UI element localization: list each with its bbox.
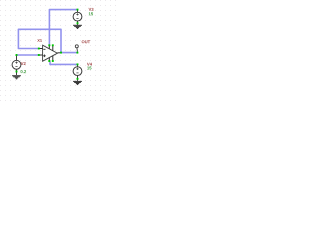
voltage source V2: [12, 60, 21, 69]
pin: op-amp top power 2: [52, 44, 54, 46]
pin: V4 minus: [77, 78, 79, 80]
grid dots background: [0, 0, 120, 105]
node OUT tick: [76, 48, 79, 52]
ground below V3: [73, 25, 82, 29]
pin: op-amp inverting input: [38, 48, 40, 50]
op-amp minus input stub: [39, 48, 43, 50]
pin: V4 plus: [77, 63, 79, 65]
op-amp bottom power pin stubs: [48, 58, 50, 61]
op-amp top power pin stubs: [48, 45, 50, 49]
voltage source V4: [73, 67, 82, 76]
ground below V2: [12, 75, 21, 79]
pin: V2 minus: [16, 71, 18, 73]
pin: op-amp top power 1: [48, 44, 50, 46]
label OUT: [82, 40, 90, 43]
ground below V4: [73, 81, 82, 85]
value 0.2: [21, 70, 27, 73]
wire: op-amp output to OUT node: [61, 52, 77, 54]
op-amp minus sign: [43, 48, 45, 50]
value 15: [89, 12, 93, 15]
pin: op-amp bottom power 1: [48, 60, 50, 62]
wire: feedback loop from output to inverting input: [18, 29, 61, 52]
pin: V2 plus: [16, 54, 18, 56]
op-amp plus input stub: [39, 54, 43, 56]
junction: output node: [60, 52, 62, 54]
pin: OUT wire end: [76, 52, 78, 54]
label V3: [89, 8, 94, 11]
op-amp output stub: [57, 52, 61, 54]
pin: op-amp non-inverting input: [38, 54, 40, 56]
label X1: [37, 39, 42, 42]
pin: V3 minus: [77, 22, 79, 24]
pin: op-amp bottom power 2: [52, 60, 54, 62]
voltage source V3: [73, 12, 82, 21]
op-amp plus sign: [43, 55, 46, 58]
wire: V- supply from op-amp bottom pin to V4: [50, 61, 77, 64]
node OUT circle: [75, 45, 78, 48]
label V4: [87, 63, 92, 66]
wire: V+ supply rail from op-amp top pin to V3: [49, 10, 77, 45]
wire: V2 to non-inverting input: [17, 54, 39, 56]
op-amp U1 triangle: [43, 45, 58, 61]
value 15: [87, 67, 91, 70]
pin: V3 plus: [77, 9, 79, 11]
label V2: [21, 62, 26, 65]
